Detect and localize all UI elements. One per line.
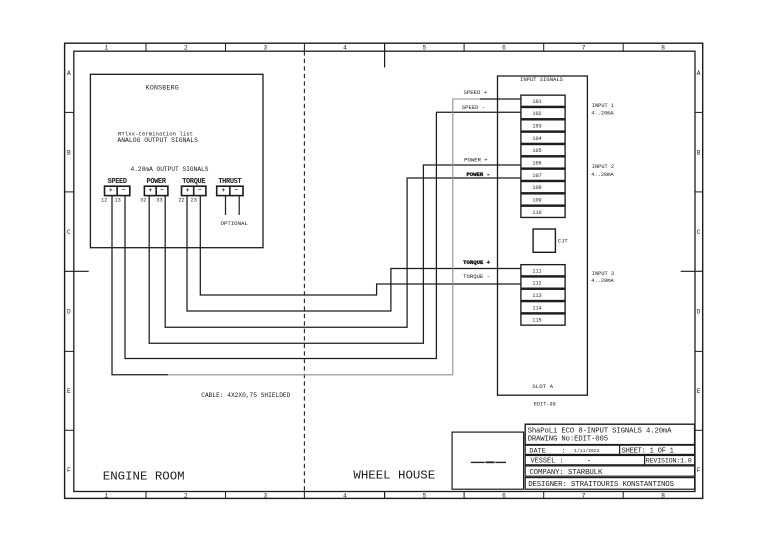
row letters left: [67, 70, 71, 474]
svg-text:-: -: [587, 458, 591, 466]
svg-text::: :: [562, 447, 566, 455]
svg-text:C: C: [67, 229, 71, 236]
svg-text:111: 111: [532, 268, 541, 274]
svg-text:TORQUE: TORQUE: [182, 178, 205, 186]
svg-text:DESIGNER: STRAITOURIS KONSTANT: DESIGNER: STRAITOURIS KONSTANTINOS: [528, 481, 674, 489]
svg-text:INPUT SIGNALS: INPUT SIGNALS: [520, 76, 564, 83]
svg-text:SPEED: SPEED: [108, 178, 127, 186]
terminal block TORQUE: [178, 178, 206, 204]
svg-text:CJT: CJT: [558, 237, 569, 244]
svg-text:D: D: [697, 309, 701, 316]
svg-text:23: 23: [191, 198, 197, 204]
svg-text:ENGINE ROOM: ENGINE ROOM: [103, 470, 185, 484]
svg-text:4..20mA: 4..20mA: [591, 110, 614, 116]
svg-text:SPEED +: SPEED +: [464, 89, 488, 96]
wire TORQUE+ (22 to 111): [187, 196, 521, 311]
svg-text:CABLE: 4X2X0,75 SHIELDED: CABLE: 4X2X0,75 SHIELDED: [201, 392, 290, 399]
column numbers bottom: [104, 493, 665, 500]
svg-text:7: 7: [582, 493, 586, 500]
svg-text:ANALOG OUTPUT SIGNALS: ANALOG OUTPUT SIGNALS: [117, 137, 198, 144]
wire POWER- (33 to 107): [165, 178, 521, 327]
svg-text:112: 112: [532, 281, 541, 287]
svg-text:106: 106: [532, 161, 541, 167]
svg-text:E: E: [67, 388, 71, 395]
svg-text:ShaPoLi ECO 8-INPUT SIGNALS 4.: ShaPoLi ECO 8-INPUT SIGNALS 4.20mA: [528, 427, 673, 435]
svg-text:INPUT 1: INPUT 1: [592, 103, 614, 109]
svg-text:5: 5: [423, 493, 427, 500]
svg-text:THRUST: THRUST: [218, 178, 241, 186]
svg-text:SPEED -: SPEED -: [462, 104, 486, 111]
svg-text:7: 7: [582, 44, 586, 51]
svg-text:WHEEL HOUSE: WHEEL HOUSE: [353, 468, 435, 482]
svg-text:110: 110: [532, 210, 541, 216]
svg-text:8: 8: [661, 44, 665, 51]
svg-text:EDIT-99: EDIT-99: [534, 402, 556, 408]
svg-text:102: 102: [532, 111, 541, 117]
svg-text:C: C: [697, 229, 701, 236]
svg-text:POWER -: POWER -: [466, 171, 490, 178]
wire SPEED+ shield run (gray): [168, 99, 480, 375]
CJT cold junction box: [533, 229, 555, 252]
svg-text:SHEET: 1 OF 1: SHEET: 1 OF 1: [622, 447, 674, 455]
right ruler ticks: [695, 111, 703, 113]
svg-text:F: F: [67, 467, 71, 474]
svg-text:108: 108: [532, 185, 541, 191]
inner border frame: [74, 51, 695, 491]
svg-text:COMPANY: STARBULK: COMPANY: STARBULK: [529, 469, 603, 477]
svg-text:3: 3: [264, 44, 268, 51]
svg-text:+: +: [186, 187, 190, 194]
svg-text:1: 1: [104, 44, 108, 51]
logo box: [452, 432, 523, 489]
input unit box (wheel house): [498, 76, 588, 395]
svg-text:107: 107: [532, 173, 541, 179]
company row: [525, 466, 694, 476]
right center tick (long): [681, 270, 703, 272]
svg-text:1: 1: [104, 493, 108, 500]
svg-text:4..20mA: 4..20mA: [591, 278, 614, 284]
svg-text:105: 105: [532, 148, 541, 154]
svg-text:5: 5: [423, 44, 427, 51]
wire POWER+ (32 to 106): [149, 165, 521, 343]
designer row: [525, 478, 694, 490]
svg-text:4: 4: [343, 493, 347, 500]
left center tick (long): [65, 270, 89, 272]
vessel/revision row: [525, 456, 694, 465]
svg-text:12: 12: [101, 198, 107, 204]
svg-text:E: E: [697, 388, 701, 395]
wire SPEED- (13 to 102): [125, 112, 521, 358]
THRUST optional stub wires: [225, 196, 227, 215]
svg-text:4..20mA: 4..20mA: [591, 172, 614, 178]
wire SPEED+ end stub: [480, 98, 521, 100]
svg-text:REVISION:1.0: REVISION:1.0: [646, 458, 692, 466]
svg-text:A: A: [697, 70, 701, 77]
wire TORQUE- (23 to 112): [200, 196, 521, 295]
svg-text:SLOT A: SLOT A: [532, 383, 553, 390]
terminal strip 101-110: [521, 95, 565, 217]
wire SPEED+ (12 to 101) black part: [112, 196, 168, 375]
svg-text:INPUT 3: INPUT 3: [592, 271, 614, 277]
svg-text:+: +: [109, 187, 113, 194]
svg-text:VESSEL :: VESSEL :: [531, 458, 564, 466]
svg-text:113: 113: [532, 293, 541, 299]
terminal block POWER: [140, 178, 168, 204]
svg-text:32: 32: [140, 198, 146, 204]
bottom center tick: [384, 492, 386, 499]
left ruler ticks: [65, 111, 74, 113]
svg-text:33: 33: [156, 198, 162, 204]
KONSBERG terminal unit box: [90, 74, 263, 247]
svg-text:2: 2: [184, 493, 188, 500]
svg-text:101: 101: [532, 99, 541, 105]
top center tick (long): [384, 43, 386, 67]
svg-text:114: 114: [532, 305, 541, 311]
svg-text:104: 104: [532, 136, 541, 142]
svg-text:F: F: [697, 467, 701, 474]
outer border frame: [65, 43, 703, 498]
svg-text:TORQUE +: TORQUE +: [463, 259, 490, 266]
svg-text:+: +: [148, 187, 152, 194]
terminal strip 111-115: [521, 265, 565, 326]
terminal block SPEED: [101, 178, 130, 204]
svg-text:13: 13: [114, 198, 120, 204]
svg-text:A: A: [67, 70, 71, 77]
column numbers top: [104, 44, 665, 51]
svg-text:D: D: [67, 309, 71, 316]
svg-text:4.20mA OUTPUT SIGNALS: 4.20mA OUTPUT SIGNALS: [131, 166, 209, 173]
svg-text:POWER: POWER: [147, 178, 167, 186]
svg-text:POWER +: POWER +: [464, 157, 488, 164]
svg-text:3: 3: [264, 493, 268, 500]
logo signature mark: [471, 461, 506, 463]
row letters right: [697, 70, 701, 474]
svg-text:DATE: DATE: [529, 447, 545, 455]
wall separation dashed line (engine room / wheel house): [303, 51, 305, 491]
terminal block THRUST: [217, 178, 243, 196]
svg-text:103: 103: [532, 124, 541, 130]
svg-text:OPTIONAL: OPTIONAL: [221, 220, 249, 227]
svg-text:8: 8: [661, 493, 665, 500]
date/sheet row: [525, 445, 694, 454]
svg-text:6: 6: [502, 493, 506, 500]
svg-text:109: 109: [532, 198, 541, 204]
svg-text:6: 6: [502, 44, 506, 51]
svg-text:INPUT 2: INPUT 2: [592, 164, 614, 170]
bottom ruler ticks: [145, 492, 147, 499]
top ruler ticks: [145, 43, 147, 51]
svg-text:115: 115: [532, 318, 541, 324]
svg-text:2: 2: [184, 44, 188, 51]
svg-text:B: B: [67, 149, 71, 156]
svg-text:B: B: [697, 149, 701, 156]
svg-text:4: 4: [343, 44, 347, 51]
svg-text:KONSBERG: KONSBERG: [146, 85, 179, 92]
svg-text:TORQUE -: TORQUE -: [463, 273, 490, 280]
svg-text:+: +: [221, 187, 225, 194]
title block header box: [525, 424, 694, 444]
svg-text:1/11/2022: 1/11/2022: [574, 448, 600, 454]
svg-text:22: 22: [178, 198, 184, 204]
svg-text:DRAWING No:EDIT-005: DRAWING No:EDIT-005: [528, 436, 608, 444]
